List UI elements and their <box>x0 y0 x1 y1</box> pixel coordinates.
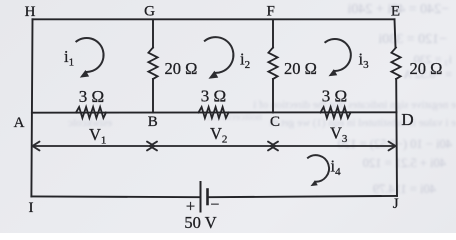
wire bottom rail I-J (left of battery) <box>31 195 199 198</box>
voltage arrow line V3 <box>271 145 396 147</box>
wire right vertical below resistor D-J <box>395 79 398 196</box>
svg-text:−: − <box>210 197 219 214</box>
loop arrow i3 <box>325 39 351 76</box>
svg-text:B: B <box>148 114 158 130</box>
arrowhead V3 left at C <box>271 142 278 151</box>
svg-text:C: C <box>270 114 280 130</box>
svg-text:i2: i2 <box>240 50 250 72</box>
svg-text:i1: i1 <box>64 47 74 69</box>
svg-text:I: I <box>29 200 34 216</box>
battery 50V long positive plate <box>200 182 202 212</box>
wire right vertical E (top lead of 20 ohm) <box>395 19 396 47</box>
svg-text:V1: V1 <box>89 125 106 147</box>
battery 50V short negative plate <box>206 190 209 205</box>
svg-text:i4: i4 <box>331 157 342 179</box>
svg-text:V3: V3 <box>330 124 348 146</box>
loop arrow i1 <box>76 38 104 78</box>
svg-text:i3: i3 <box>359 50 370 72</box>
svg-text:3 Ω: 3 Ω <box>79 87 104 106</box>
voltage arrow line V1 <box>33 145 155 147</box>
wire bottom rail battery to J <box>208 196 398 197</box>
resistor 20 ohm (G branch) <box>148 48 157 80</box>
svg-text:20 Ω: 20 Ω <box>165 59 198 78</box>
voltage arrow line V2 <box>150 145 275 147</box>
svg-text:G: G <box>144 4 155 20</box>
resistor 3 ohm B-C <box>199 107 229 118</box>
wire middle rail A-B-C-D <box>32 111 397 113</box>
wire G-B lower lead <box>152 79 154 113</box>
loop arrow i2 <box>204 37 233 79</box>
arrowhead V2 left at B <box>150 142 157 151</box>
svg-text:3 Ω: 3 Ω <box>201 87 226 106</box>
wire G vertical top lead <box>152 20 154 48</box>
resistor 3 ohm A-B <box>76 107 106 118</box>
svg-text:3 Ω: 3 Ω <box>322 87 347 106</box>
svg-text:A: A <box>14 115 25 131</box>
wire F-C lower lead <box>272 79 274 113</box>
svg-text:20 Ω: 20 Ω <box>410 59 443 78</box>
resistor 20 ohm (F branch) <box>268 48 277 80</box>
svg-text:D: D <box>401 110 413 129</box>
arrowhead V1 right at B <box>147 142 154 151</box>
svg-text:E: E <box>391 4 400 20</box>
resistor 20 ohm (E branch) <box>391 48 400 80</box>
wire top rail H-G-F-E <box>33 18 395 20</box>
svg-text:H: H <box>25 4 36 20</box>
svg-text:J: J <box>393 196 399 212</box>
wire F vertical top lead <box>272 20 274 48</box>
svg-text:20 Ω: 20 Ω <box>284 59 317 78</box>
svg-text:50 V: 50 V <box>184 213 216 232</box>
loop arrow i4 <box>307 155 329 186</box>
wire left vertical H-A-I <box>31 19 32 196</box>
resistor 3 ohm C-D <box>321 107 351 118</box>
arrowhead V3 right at D <box>389 142 396 151</box>
svg-text:F: F <box>267 4 275 20</box>
arrowhead V1 left at A <box>33 142 40 151</box>
arrowhead V2 right at C <box>268 142 275 151</box>
svg-text:V2: V2 <box>210 124 227 146</box>
